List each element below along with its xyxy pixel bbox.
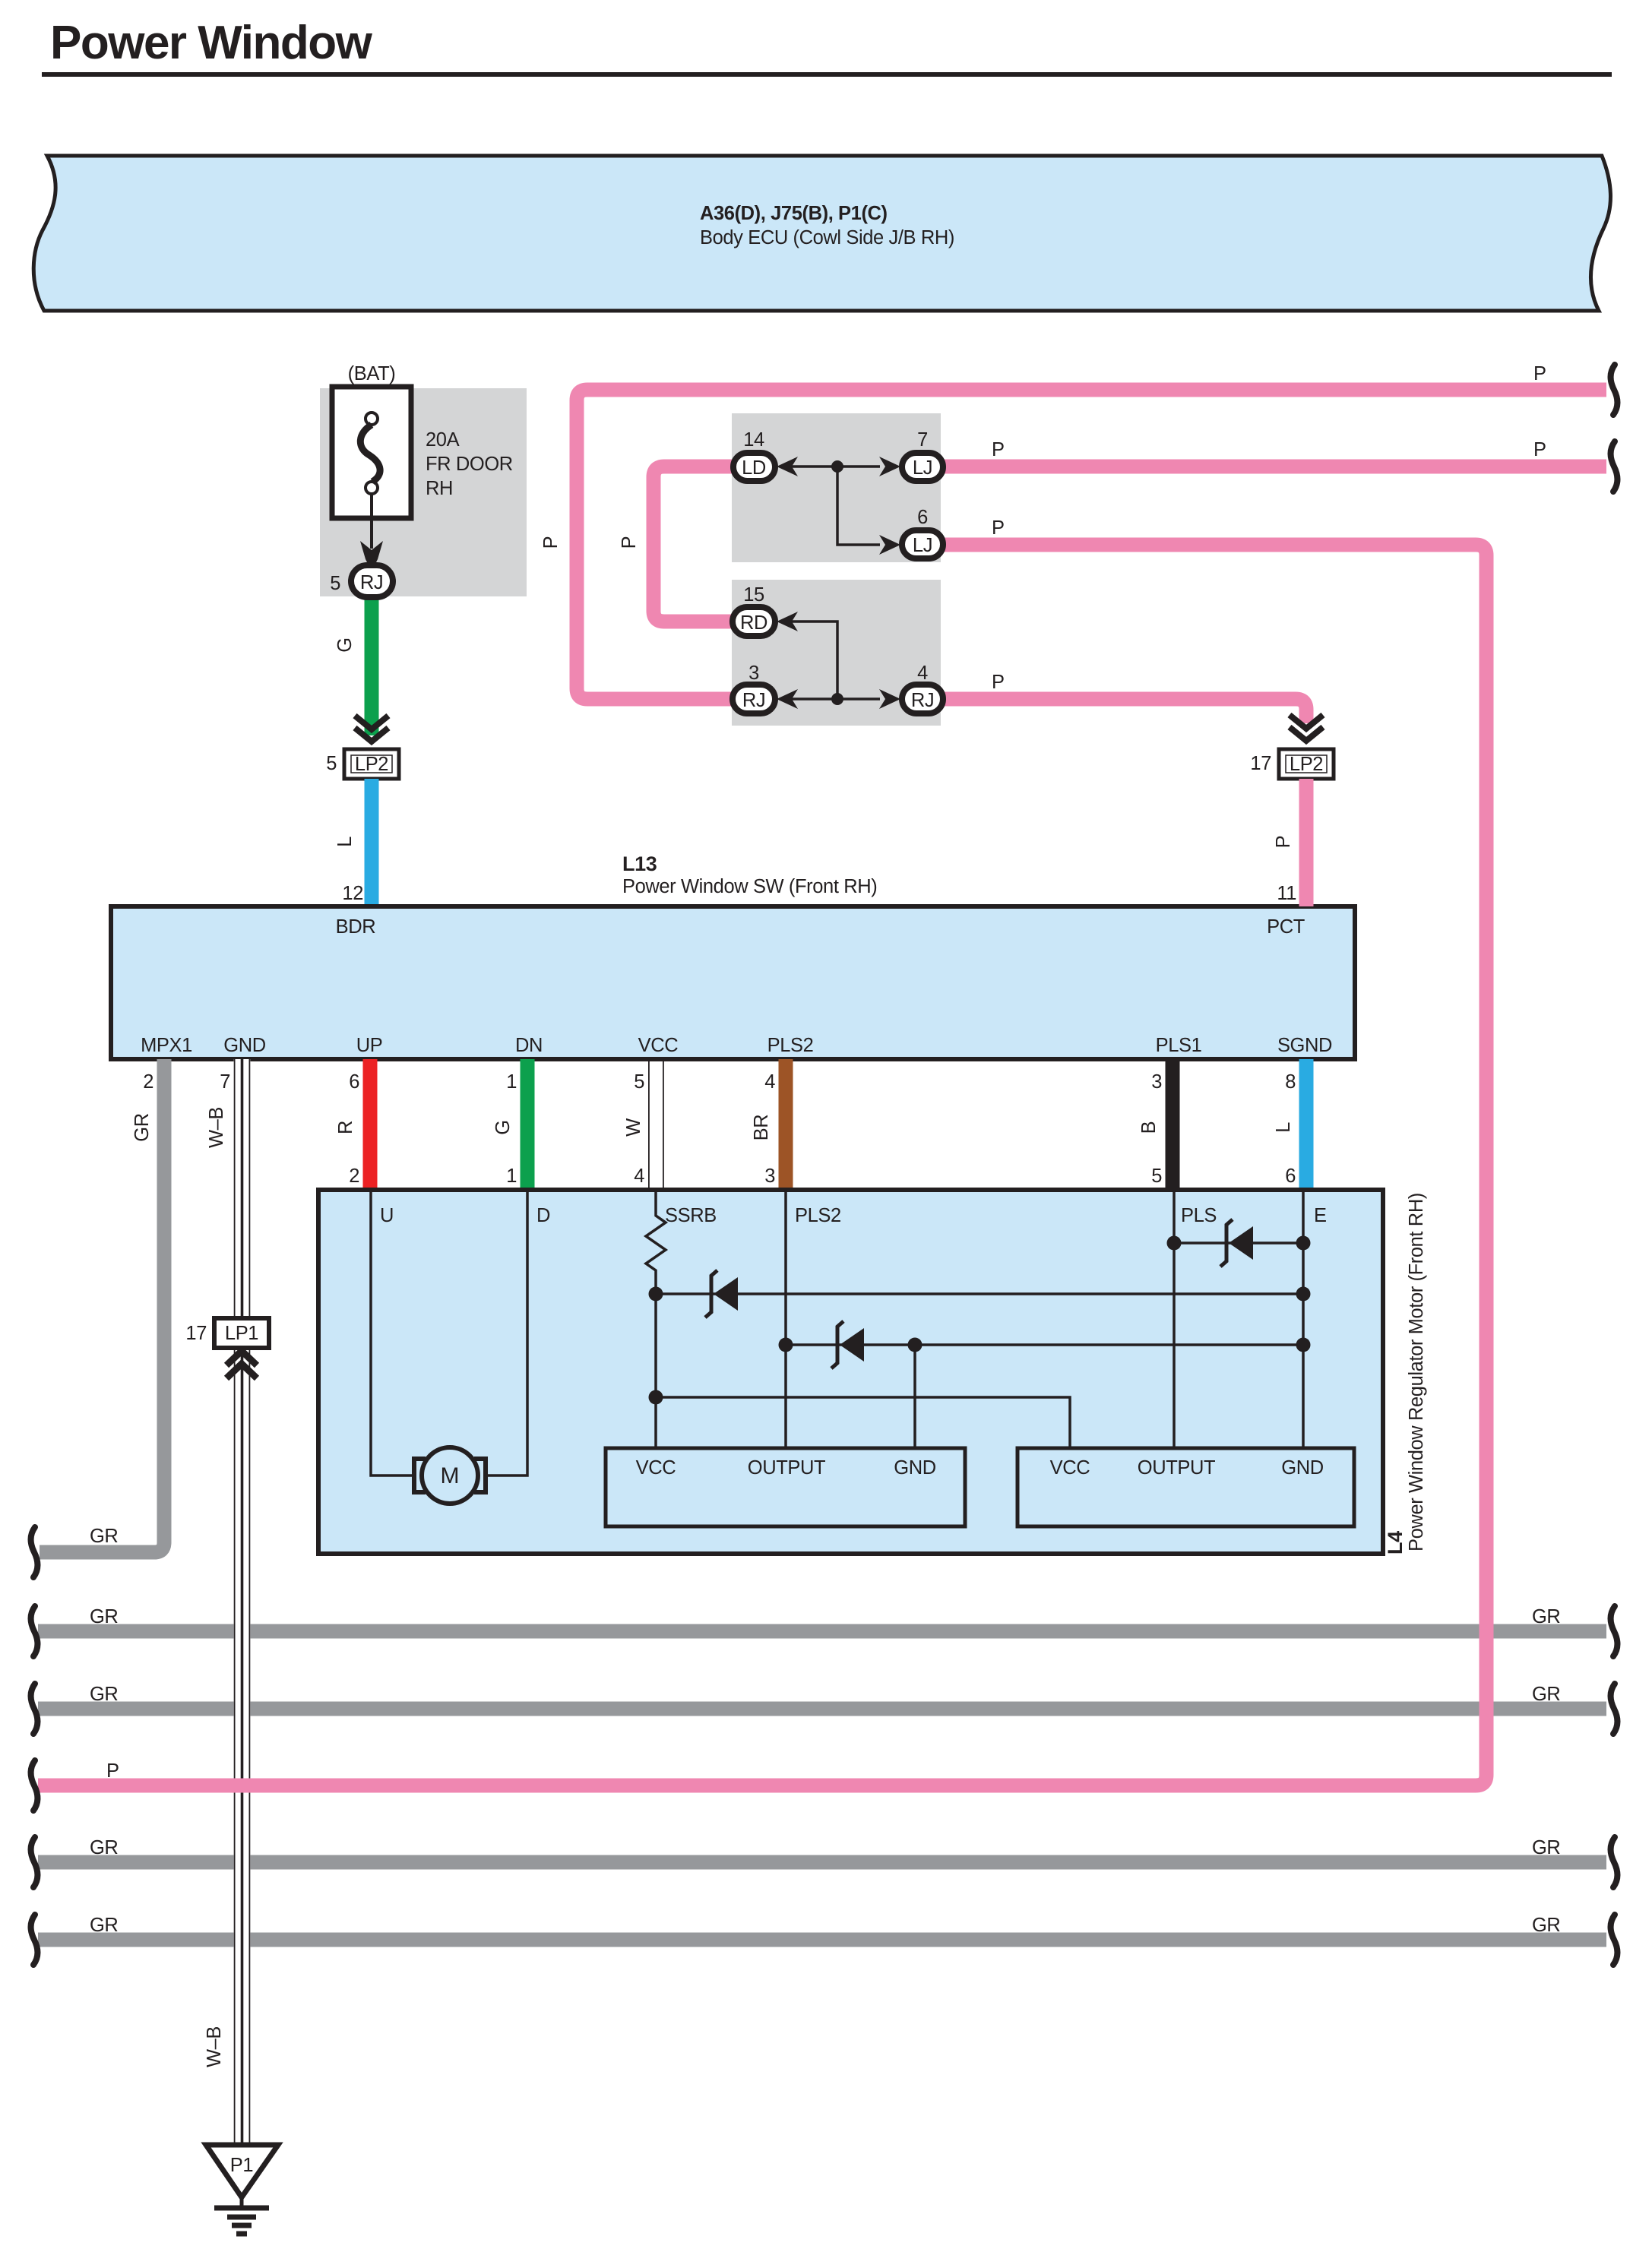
svg-text:M: M — [441, 1463, 460, 1488]
svg-text:17: 17 — [1250, 753, 1271, 774]
junction dot PLS2 row3 — [779, 1338, 793, 1352]
svg-text:BDR: BDR — [336, 916, 376, 938]
svg-text:6: 6 — [349, 1071, 359, 1093]
svg-text:P: P — [540, 536, 562, 549]
svg-text:SGND: SGND — [1277, 1035, 1332, 1056]
wire G (green) fuse to LP2 — [365, 593, 379, 735]
svg-text:P: P — [992, 672, 1005, 693]
wire W-B (white-black) GND to ground — [234, 1059, 251, 1319]
connector 5 LP2 — [344, 749, 399, 779]
wire B (black) PLS1 to PLS — [1166, 1059, 1180, 1190]
svg-text:RJ: RJ — [911, 690, 934, 711]
junction dot E row1 — [1296, 1236, 1311, 1251]
wire PLS2 vertical — [784, 1190, 787, 1448]
controller box right (VCC OUTPUT GND) — [1017, 1448, 1354, 1526]
wire GND tee (left box) — [913, 1345, 916, 1448]
svg-text:L13: L13 — [622, 852, 657, 875]
svg-text:8: 8 — [1285, 1071, 1296, 1093]
wire G (green) DN to D — [521, 1059, 535, 1190]
junction dot E row3 — [1296, 1338, 1311, 1352]
svg-text:RH: RH — [426, 478, 453, 499]
junction dot lower block — [831, 693, 843, 705]
junction dot E row2 — [1296, 1287, 1311, 1302]
wire row2 SSRB to E — [656, 1292, 1303, 1295]
svg-text:P: P — [1533, 439, 1546, 460]
svg-text:12: 12 — [342, 883, 363, 904]
svg-text:OUTPUT: OUTPUT — [748, 1457, 825, 1479]
svg-text:GR: GR — [131, 1113, 153, 1141]
wire GR bus 4 — [38, 1933, 1606, 1947]
junction dot upper block — [831, 460, 843, 473]
svg-text:LJ: LJ — [913, 535, 932, 556]
svg-text:4: 4 — [764, 1071, 775, 1093]
svg-text:(BAT): (BAT) — [348, 363, 396, 384]
wire PLS vertical — [1173, 1190, 1176, 1448]
svg-text:UP: UP — [356, 1035, 383, 1056]
svg-text:VCC: VCC — [1050, 1457, 1090, 1479]
wire P LP2 to L13 pin 11 — [1299, 779, 1314, 906]
svg-text:RD: RD — [740, 612, 767, 634]
svg-text:5: 5 — [1151, 1166, 1162, 1187]
svg-text:P: P — [619, 536, 640, 549]
wire L (blue) LP2 to L13 pin 12 — [365, 779, 379, 906]
svg-text:PCT: PCT — [1267, 916, 1305, 938]
wire break squiggles right — [1611, 365, 1618, 415]
svg-text:G: G — [334, 637, 356, 652]
svg-text:PLS2: PLS2 — [767, 1035, 814, 1056]
svg-text:SSRB: SSRB — [665, 1205, 717, 1226]
junction block lower (RD/RJ, gray) — [732, 580, 941, 726]
svg-text:GR: GR — [90, 1606, 118, 1627]
svg-text:GR: GR — [1532, 1915, 1560, 1936]
controller box left (VCC OUTPUT GND) — [606, 1448, 965, 1526]
svg-text:LP1: LP1 — [225, 1323, 258, 1344]
svg-text:7: 7 — [917, 429, 928, 451]
wire P main (top bus down to RJ connector 3) — [577, 390, 1606, 699]
svg-text:G: G — [492, 1120, 514, 1134]
svg-text:3: 3 — [1151, 1071, 1162, 1093]
svg-text:2: 2 — [143, 1071, 153, 1093]
svg-text:OUTPUT: OUTPUT — [1138, 1457, 1215, 1479]
splice chevron into LP2 — [355, 716, 388, 742]
svg-text:Body ECU (Cowl Side J/B RH): Body ECU (Cowl Side J/B RH) — [700, 227, 954, 248]
svg-text:20A: 20A — [426, 429, 460, 451]
svg-text:5: 5 — [330, 573, 340, 594]
svg-text:14: 14 — [743, 429, 764, 451]
svg-text:PLS2: PLS2 — [795, 1205, 841, 1226]
svg-text:GR: GR — [90, 1526, 118, 1547]
svg-text:6: 6 — [917, 507, 928, 528]
wire U to motor — [371, 1190, 414, 1476]
arrow into RJ pin 3 — [777, 689, 798, 709]
svg-text:Power Window Regulator Motor (: Power Window Regulator Motor (Front RH) — [1406, 1193, 1427, 1551]
svg-text:LP2: LP2 — [355, 754, 388, 775]
arrow into RJ pin 4 — [879, 689, 900, 709]
svg-text:W: W — [623, 1118, 644, 1137]
svg-text:17: 17 — [185, 1323, 207, 1344]
fuse 20A FR DOOR RH — [332, 387, 411, 518]
svg-text:U: U — [380, 1205, 394, 1226]
svg-text:1: 1 — [506, 1166, 517, 1187]
wire break squiggles left — [31, 1527, 38, 1577]
svg-text:A36(D), J75(B), P1(C): A36(D), J75(B), P1(C) — [700, 203, 888, 224]
svg-text:MPX1: MPX1 — [141, 1035, 192, 1056]
splice chevron into LP2 right — [1290, 715, 1323, 741]
svg-text:L: L — [334, 837, 356, 847]
node A36(D),J75(B),P1(C) Body ECU banner — [33, 156, 1610, 311]
svg-text:GND: GND — [1281, 1457, 1323, 1479]
svg-text:RJ: RJ — [360, 572, 383, 593]
wire P from LJ7 to right — [941, 460, 1606, 474]
svg-text:2: 2 — [349, 1166, 359, 1187]
svg-text:VCC: VCC — [636, 1457, 676, 1479]
svg-text:PLS: PLS — [1181, 1205, 1217, 1226]
junction dot GND tee row3 — [908, 1338, 923, 1352]
wire D to motor — [486, 1190, 527, 1476]
svg-text:GR: GR — [1532, 1684, 1560, 1705]
svg-text:BR: BR — [751, 1115, 772, 1141]
svg-text:RJ: RJ — [742, 690, 765, 711]
arrow into RD — [777, 612, 798, 631]
svg-text:4: 4 — [634, 1166, 644, 1187]
wire P from LJ6 down to bottom bus — [38, 545, 1486, 1785]
svg-text:P: P — [992, 439, 1005, 460]
wire upper junction block LD-LJ — [790, 467, 880, 545]
svg-text:GND: GND — [223, 1035, 265, 1056]
motor assembly L4 Power Window Regulator Motor (Front RH) — [318, 1190, 1383, 1554]
splice chevron below LP1 — [226, 1351, 257, 1378]
arrow into LJ pin 7 — [879, 457, 900, 476]
svg-text:L: L — [1273, 1122, 1294, 1133]
svg-text:P: P — [106, 1760, 119, 1782]
svg-text:6: 6 — [1285, 1166, 1296, 1187]
wire row3 PLS2 to E — [786, 1343, 1303, 1346]
svg-text:3: 3 — [764, 1166, 775, 1187]
junction dot SSRB row2 — [649, 1287, 663, 1302]
svg-text:W–B: W–B — [204, 2026, 225, 2067]
svg-text:GR: GR — [1532, 1837, 1560, 1858]
svg-text:VCC: VCC — [638, 1035, 679, 1056]
wire GR bus 3 — [38, 1855, 1606, 1870]
ground P1 — [206, 2145, 278, 2197]
svg-text:15: 15 — [743, 584, 764, 606]
wire P from RJ4 to LP2 — [941, 699, 1306, 723]
zener diode D2 — [840, 1328, 864, 1362]
svg-text:3: 3 — [748, 663, 759, 684]
svg-text:4: 4 — [917, 663, 928, 684]
wire row4 SSRB to VCC (right box) — [656, 1397, 1070, 1448]
svg-text:5: 5 — [634, 1071, 644, 1093]
svg-text:GR: GR — [90, 1837, 118, 1858]
svg-text:GR: GR — [1532, 1606, 1560, 1627]
wire lower junction block RD-RJ — [790, 622, 880, 699]
arrow into LD — [777, 457, 798, 476]
connector 17 LP2 — [1279, 749, 1334, 779]
motor M — [414, 1459, 426, 1492]
wire GR bus 1 — [38, 1624, 1606, 1639]
svg-text:PLS1: PLS1 — [1156, 1035, 1202, 1056]
arrow into LJ pin 6 — [879, 535, 900, 555]
junction block upper (LD/LJ, gray) — [732, 413, 941, 562]
svg-text:LP2: LP2 — [1290, 754, 1323, 775]
svg-text:B: B — [1138, 1121, 1160, 1134]
svg-text:GR: GR — [90, 1684, 118, 1705]
wire GR (gray) MPX1 elbow — [40, 1059, 164, 1552]
wire fuse to connector RJ — [370, 494, 373, 549]
svg-text:L4: L4 — [1384, 1531, 1407, 1555]
svg-text:P: P — [1273, 836, 1294, 849]
wire R (red) UP to U — [363, 1059, 378, 1190]
wire W (white) VCC to SSRB — [648, 1059, 650, 1190]
svg-text:5: 5 — [326, 753, 337, 774]
svg-text:1: 1 — [506, 1071, 517, 1093]
wire GR bus 2 — [38, 1702, 1606, 1716]
resistor SSRB — [646, 1190, 666, 1448]
junction dot SSRB row4 — [649, 1390, 663, 1405]
svg-text:11: 11 — [1277, 883, 1296, 904]
wire row1 PLS to E — [1174, 1241, 1303, 1245]
wire BR (brown) PLS2 to PLS2 — [779, 1059, 793, 1190]
svg-text:LD: LD — [742, 457, 766, 479]
svg-text:R: R — [335, 1121, 356, 1134]
svg-text:7: 7 — [220, 1071, 230, 1093]
svg-text:DN: DN — [515, 1035, 543, 1056]
svg-text:GR: GR — [90, 1915, 118, 1936]
svg-text:P: P — [1533, 363, 1546, 384]
svg-text:GND: GND — [894, 1457, 935, 1479]
wire E vertical — [1302, 1190, 1305, 1448]
zener diode D1 — [714, 1277, 738, 1311]
wire L (blue) SGND to E — [1299, 1059, 1314, 1190]
svg-text:P: P — [992, 517, 1005, 539]
zener diode D3 — [1229, 1226, 1253, 1260]
svg-text:LJ: LJ — [913, 457, 932, 479]
svg-text:FR DOOR: FR DOOR — [426, 454, 513, 475]
wire P from LD14 down to RD15 — [654, 467, 732, 622]
svg-text:Power Window: Power Window — [50, 17, 373, 69]
connector 5 RJ — [351, 565, 393, 597]
svg-text:E: E — [1314, 1205, 1327, 1226]
svg-text:W–B: W–B — [206, 1107, 227, 1148]
svg-text:Power Window SW (Front RH): Power Window SW (Front RH) — [622, 876, 877, 897]
svg-text:D: D — [536, 1205, 550, 1226]
junction dot PLS row1 — [1167, 1236, 1182, 1251]
junction block J/B (fuse area, gray) — [320, 388, 527, 596]
svg-text:P1: P1 — [230, 2155, 253, 2176]
